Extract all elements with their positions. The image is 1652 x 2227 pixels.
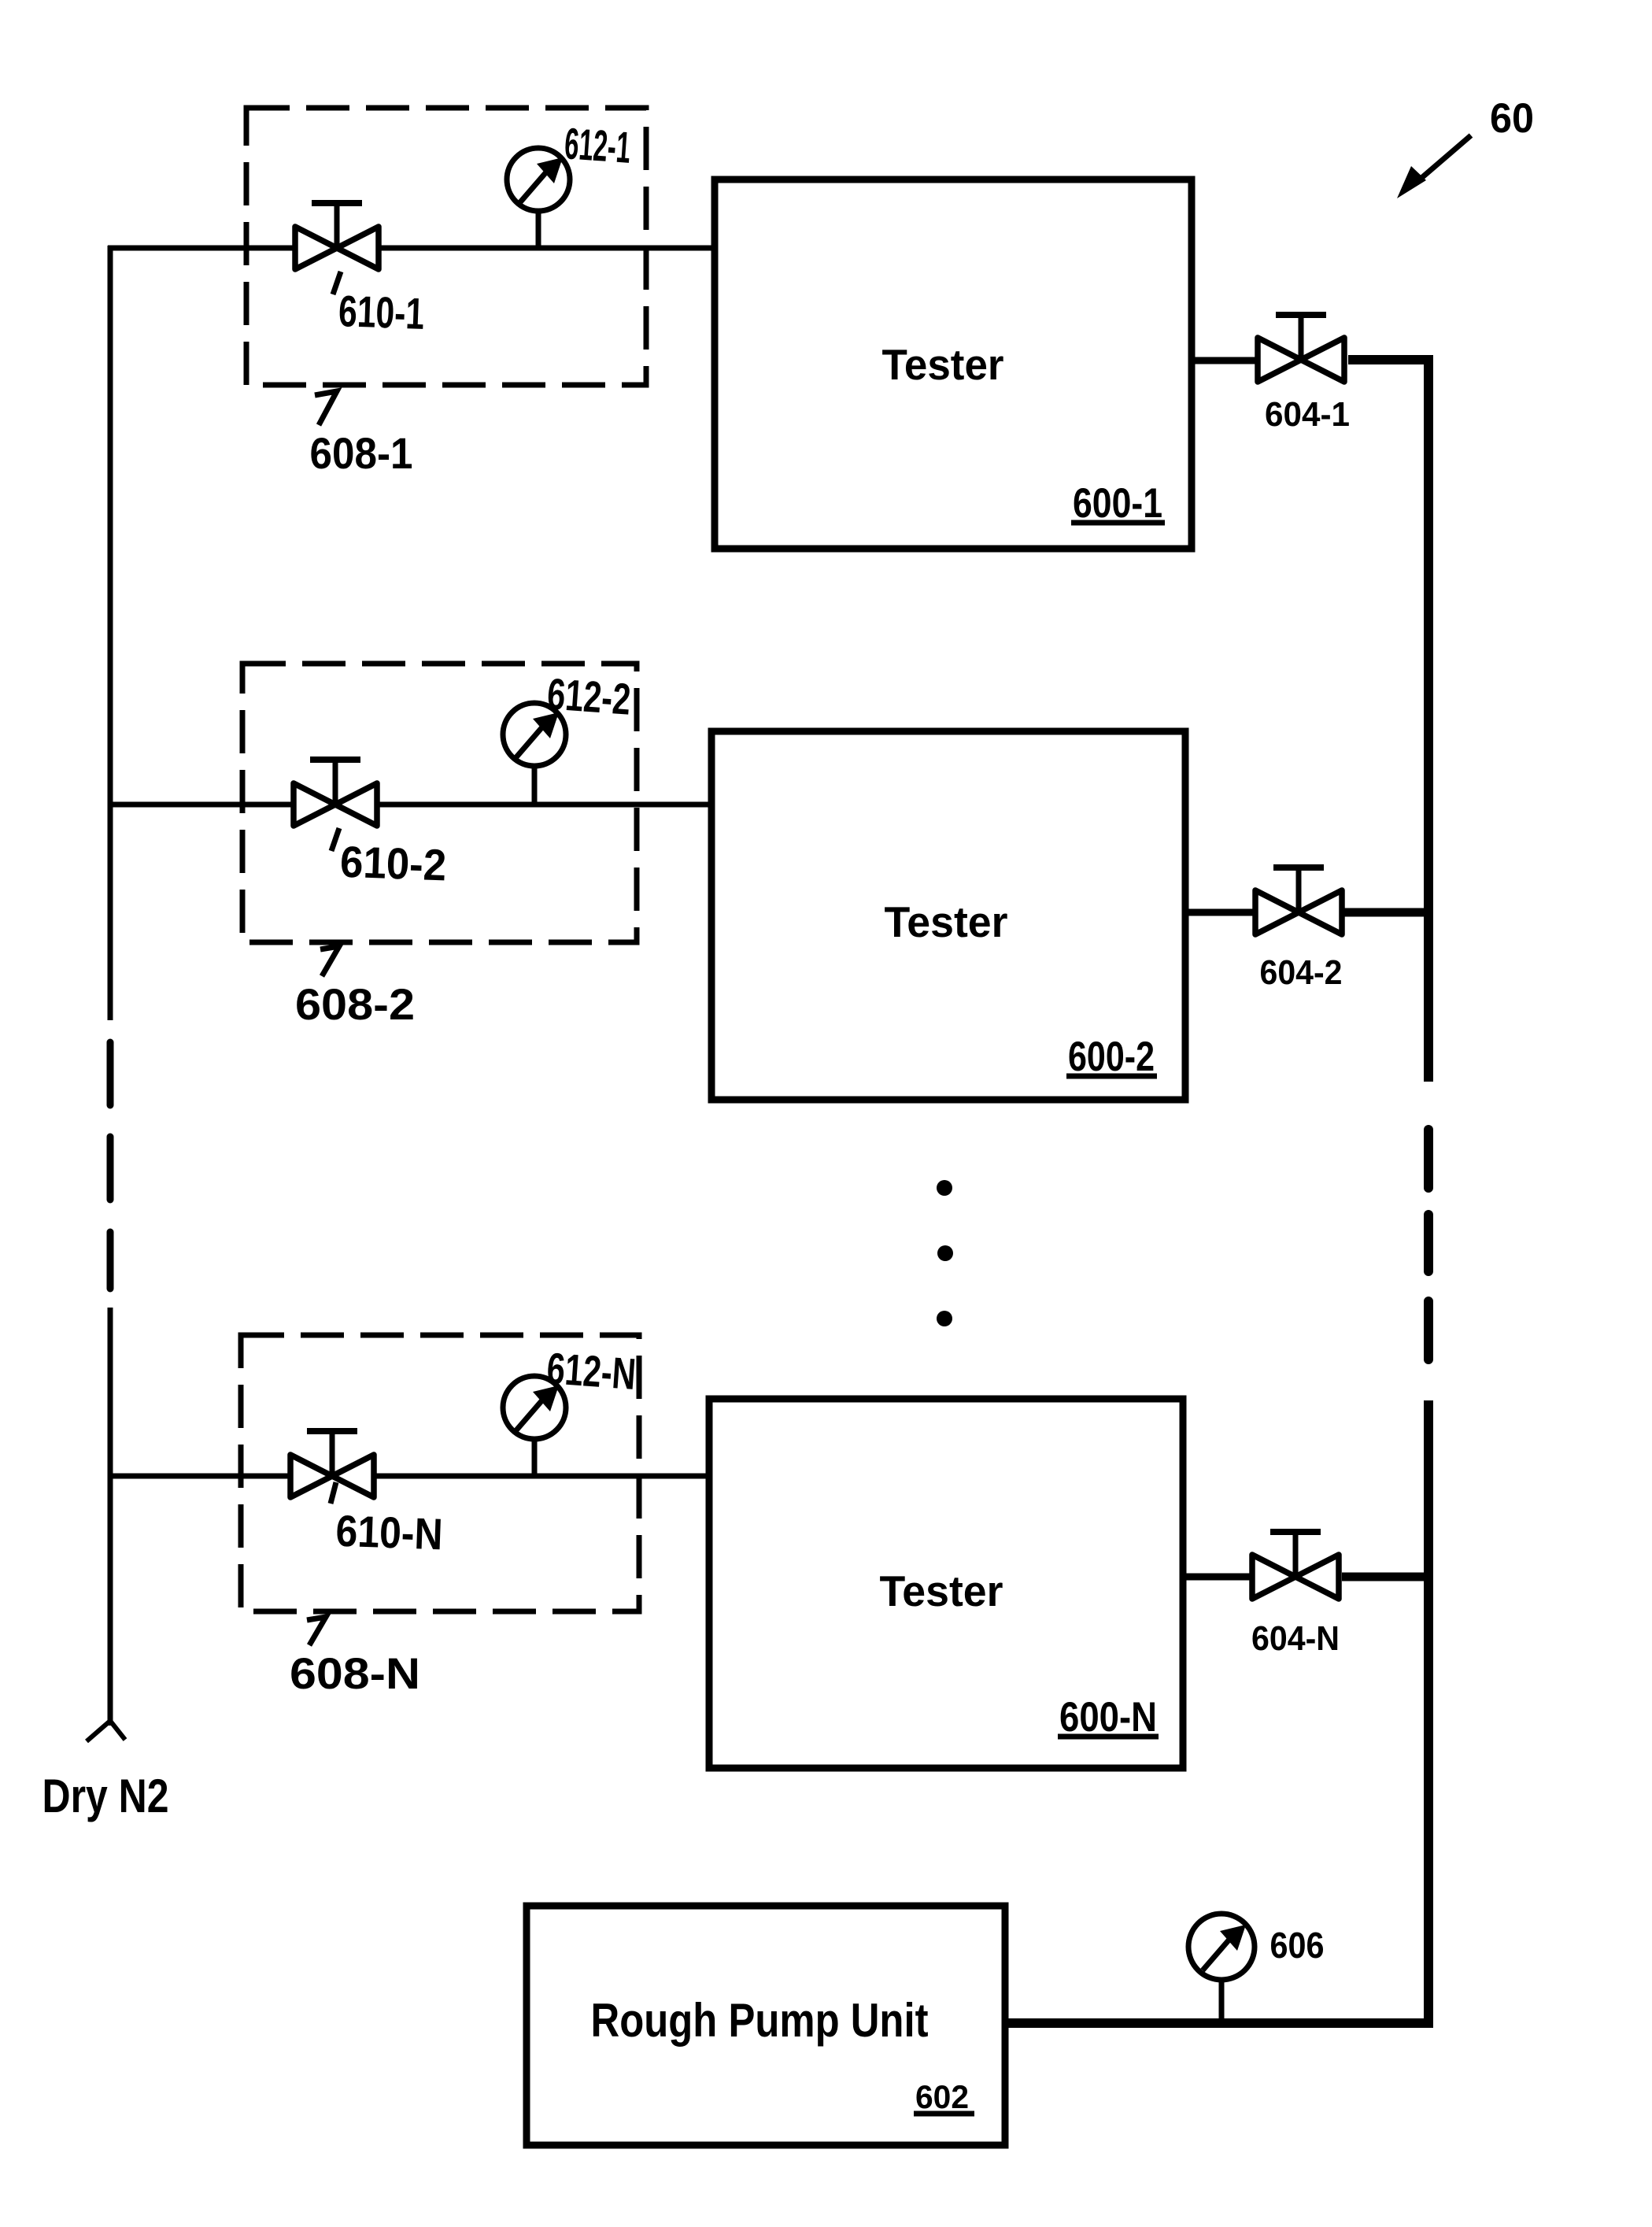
svg-text:600-2: 600-2 [1068, 1034, 1155, 1080]
svg-text:604-N: 604-N [1251, 1619, 1340, 1658]
svg-text:604-2: 604-2 [1260, 953, 1343, 992]
svg-text:Tester: Tester [882, 340, 1004, 389]
svg-text:612-2: 612-2 [545, 668, 632, 723]
svg-text:Tester: Tester [885, 897, 1008, 946]
svg-text:608-1: 608-1 [310, 428, 413, 478]
svg-text:610-1: 610-1 [338, 286, 425, 338]
svg-text:602: 602 [915, 2078, 969, 2115]
svg-text:Tester: Tester [880, 1567, 1003, 1615]
svg-text:610-2: 610-2 [339, 837, 447, 890]
svg-text:600-1: 600-1 [1073, 480, 1162, 527]
svg-text:Rough Pump Unit: Rough Pump Unit [591, 1994, 929, 2047]
svg-text:604-1: 604-1 [1265, 395, 1350, 434]
svg-text:608-2: 608-2 [295, 979, 415, 1029]
svg-text:608-N: 608-N [290, 1648, 420, 1698]
svg-text:612-N: 612-N [545, 1343, 638, 1399]
svg-text:Dry N2: Dry N2 [43, 1770, 169, 1822]
svg-text:610-N: 610-N [335, 1506, 444, 1559]
svg-text:600-N: 600-N [1059, 1694, 1157, 1741]
svg-text:606: 606 [1270, 1925, 1325, 1966]
svg-text:60: 60 [1490, 95, 1534, 142]
svg-text:612-1: 612-1 [563, 118, 632, 172]
